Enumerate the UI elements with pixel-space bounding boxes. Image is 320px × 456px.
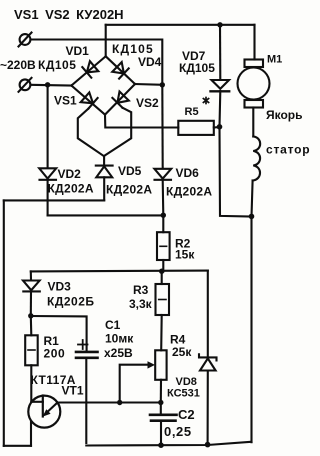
svg-text:КД105: КД105 xyxy=(38,58,76,72)
wire: bridge right vertex extension xyxy=(135,83,162,86)
transistor VT1 (КТ117А) xyxy=(28,396,60,446)
wire: VS2 gate xyxy=(104,108,131,156)
svg-text:VD3: VD3 xyxy=(48,280,72,294)
svg-text:VD6: VD6 xyxy=(176,166,200,180)
svg-text:VD8: VD8 xyxy=(176,376,197,388)
terminal X1 xyxy=(20,34,31,45)
diode VD1 xyxy=(82,61,98,77)
capacitor C1 xyxy=(76,352,98,443)
zener VD8 xyxy=(199,271,217,445)
node: R2/R3/rail xyxy=(159,269,164,274)
wire: emitter wire xyxy=(58,401,161,403)
diode VD5 xyxy=(96,156,113,200)
svg-text:25к: 25к xyxy=(172,345,192,359)
svg-text:VS1 VS2 КУ202Н: VS1 VS2 КУ202Н xyxy=(14,7,124,22)
svg-text:х25В: х25В xyxy=(104,346,133,360)
diode VD3 xyxy=(23,271,40,315)
bridge arm top-right xyxy=(106,56,135,84)
svg-text:200: 200 xyxy=(44,347,66,361)
svg-text:VD1: VD1 xyxy=(66,44,90,58)
thyristor VS1 xyxy=(81,92,98,108)
svg-text:статор: статор xyxy=(266,143,310,157)
wire: bottom rail right xyxy=(86,442,251,446)
wire: bottom rail left xyxy=(4,445,31,447)
wire: bridge top vertex to top rail xyxy=(105,25,107,57)
wire: oscillator top rail xyxy=(31,270,208,273)
svg-text:КД202А: КД202А xyxy=(106,183,152,197)
stator coil xyxy=(253,137,261,181)
wire: left bus xyxy=(3,200,5,445)
asterisk xyxy=(203,98,208,104)
svg-text:Якорь: Якорь xyxy=(266,108,303,122)
svg-text:VT1: VT1 xyxy=(62,384,84,398)
motor M1 wire from rail xyxy=(253,25,255,60)
wire: VD7 node down and right xyxy=(220,127,252,217)
svg-text:C1: C1 xyxy=(105,318,121,332)
bridge arm left-top xyxy=(71,56,105,85)
svg-text:10мк: 10мк xyxy=(105,332,134,346)
wire: right column down xyxy=(250,217,252,443)
svg-text:C2: C2 xyxy=(178,407,195,422)
diode VD6 xyxy=(154,85,171,215)
wire from X2 to bridge left vertex xyxy=(31,84,72,87)
svg-text:VD2: VD2 xyxy=(58,167,82,181)
wire: bridge bottom vertex to R5 xyxy=(105,115,178,128)
wire: node G to R2 xyxy=(48,214,164,216)
svg-text:0,25: 0,25 xyxy=(164,424,192,439)
svg-text:КД105: КД105 xyxy=(112,42,154,56)
diode VD2 xyxy=(39,85,56,216)
svg-text:КД202А: КД202А xyxy=(48,182,94,196)
motor M1 brush top xyxy=(245,60,264,68)
svg-text:КС531: КС531 xyxy=(167,388,200,400)
capacitor C2 xyxy=(150,403,177,446)
motor M1 brush bottom xyxy=(245,100,264,108)
diode VD7 xyxy=(211,25,230,127)
resistor R4 xyxy=(155,350,166,402)
svg-text:R5: R5 xyxy=(185,106,199,118)
wire: armature to stator xyxy=(252,108,254,137)
node: R5 / VD7 / down wire xyxy=(217,124,223,130)
arrow R4 wiper xyxy=(148,361,156,368)
wire: VS1 gate xyxy=(78,109,104,157)
wire: top rail xyxy=(106,24,255,26)
resistor R2 xyxy=(157,215,170,271)
wire: R4 wiper xyxy=(120,365,150,403)
svg-text:VD5: VD5 xyxy=(118,164,142,178)
svg-text:М1: М1 xyxy=(267,54,282,66)
wire: VD2/VD5 anode bus xyxy=(4,199,104,201)
wire from X1 to bridge right vertex xyxy=(31,40,163,85)
node: VD8 / bottom rail xyxy=(205,442,211,448)
wire: R5 right lead xyxy=(214,126,220,129)
node: stator / right column xyxy=(249,214,255,220)
svg-text:3,3к: 3,3к xyxy=(129,297,153,311)
wire: stator to bottom node xyxy=(252,181,253,217)
svg-text:~220В: ~220В xyxy=(0,58,36,72)
terminal X2 xyxy=(20,79,31,90)
node: right vertex / VD6 branch xyxy=(160,82,165,87)
svg-text:КД105: КД105 xyxy=(179,61,215,75)
svg-text:15к: 15к xyxy=(175,248,195,262)
svg-text:VD4: VD4 xyxy=(138,55,162,69)
svg-text:КД202Б: КД202Б xyxy=(47,295,95,309)
node: emitter / wiper riser xyxy=(117,400,122,405)
resistor R5 xyxy=(178,121,214,135)
svg-text:R3: R3 xyxy=(133,283,149,297)
diode VD4 xyxy=(112,62,128,79)
node: X2 wire / VD2 branch xyxy=(45,82,50,87)
wire: node to C1 top xyxy=(31,316,87,350)
bridge arm right-bottom xyxy=(105,84,135,115)
node: R4 / C2 / emitter xyxy=(158,400,163,405)
motor M1 armature xyxy=(238,68,270,100)
node: top rail / VD7 branch xyxy=(217,22,222,27)
svg-text:КД202А: КД202А xyxy=(166,185,212,199)
thyristor VS2 xyxy=(112,92,128,108)
resistor R1 xyxy=(25,316,38,402)
node: R2 top / VD6 xyxy=(161,213,166,218)
bridge arm left-bottom xyxy=(71,86,105,115)
svg-text:VS1: VS1 xyxy=(54,94,77,108)
node: VD3 / R1 / C1 wire xyxy=(28,313,33,318)
svg-text:VS2: VS2 xyxy=(136,96,159,110)
node: C2 / bottom rail xyxy=(158,442,164,448)
resistor R3 xyxy=(156,271,170,350)
plus sign C1 xyxy=(78,340,88,349)
